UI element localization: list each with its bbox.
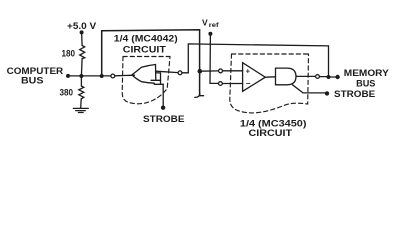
svg-text:BUS: BUS: [21, 76, 43, 87]
pin MC3450 - input circle: [219, 82, 223, 86]
svg-text:BUS: BUS: [356, 78, 375, 89]
svg-text:STROBE: STROBE: [143, 114, 185, 125]
node +5V terminal: [80, 30, 84, 34]
svg-text:CIRCUIT: CIRCUIT: [249, 128, 293, 139]
gate U1 driver (OR shape with output block): [132, 65, 163, 85]
wire 380 top lead: [80, 76, 82, 86]
node memory bus terminal: [335, 75, 339, 79]
svg-text:380: 380: [60, 88, 74, 99]
wire to memory bus terminal: [329, 76, 337, 78]
node memory junction: [327, 75, 331, 79]
svg-text:+5.0 V: +5.0 V: [67, 21, 97, 32]
wire J-hook line continuation arrow: [195, 93, 204, 97]
node junction B (line tap): [100, 74, 104, 78]
wire line A (bus to receiver, top): [102, 30, 200, 96]
wire bus row into gate input: [115, 74, 135, 77]
wire R1 bottom lead to bus row: [80, 59, 83, 76]
wire U3 strobe diagonal: [293, 85, 326, 93]
resistor R2 380: [79, 86, 84, 99]
resistor R1 180: [80, 46, 85, 59]
svg-text:ref: ref: [209, 22, 220, 29]
svg-text:V: V: [202, 17, 208, 27]
svg-text:STROBE: STROBE: [334, 89, 375, 99]
wire U1 output to pin: [156, 71, 178, 72]
wire Vref to receiver - input: [210, 34, 243, 84]
svg-text:−: −: [246, 79, 251, 88]
wire line B driver output to memory node: [182, 44, 329, 77]
wire computer bus row: [68, 75, 111, 77]
wire comparator output to gate U3: [265, 76, 275, 78]
pin MC3450 output circle: [316, 75, 320, 79]
wire junction to receiver + input: [200, 70, 243, 72]
node Vref terminal: [208, 32, 212, 36]
wire U1 strobe drop: [161, 80, 164, 105]
svg-text:180: 180: [62, 49, 76, 60]
node strobe terminal right: [325, 91, 329, 95]
wire output to memory junction: [319, 76, 328, 78]
wire +5V lead to resistor R1: [81, 32, 84, 45]
pin MC3450 + input circle: [219, 69, 223, 73]
pin MC4042 input circle: [111, 74, 115, 78]
node computer bus terminal: [66, 74, 70, 78]
gate U3 (AND shape): [276, 68, 297, 85]
svg-text:CIRCUIT: CIRCUIT: [123, 45, 166, 56]
node line junction: [198, 69, 203, 74]
svg-text:+: +: [246, 66, 251, 75]
ground: [73, 108, 88, 112]
svg-text:1/4 (MC4042): 1/4 (MC4042): [114, 34, 178, 45]
dashed box 1/4 MC4042: [122, 57, 170, 104]
dashed box 1/4 MC3450: [230, 54, 309, 113]
op-amp U2 comparator: [243, 63, 266, 92]
node strobe terminal left: [161, 106, 165, 110]
pin MC4042 output circle: [178, 71, 182, 75]
wire R2 bottom lead: [80, 99, 83, 108]
node junction A (terminators): [79, 74, 83, 78]
wire U3 output: [296, 75, 316, 77]
